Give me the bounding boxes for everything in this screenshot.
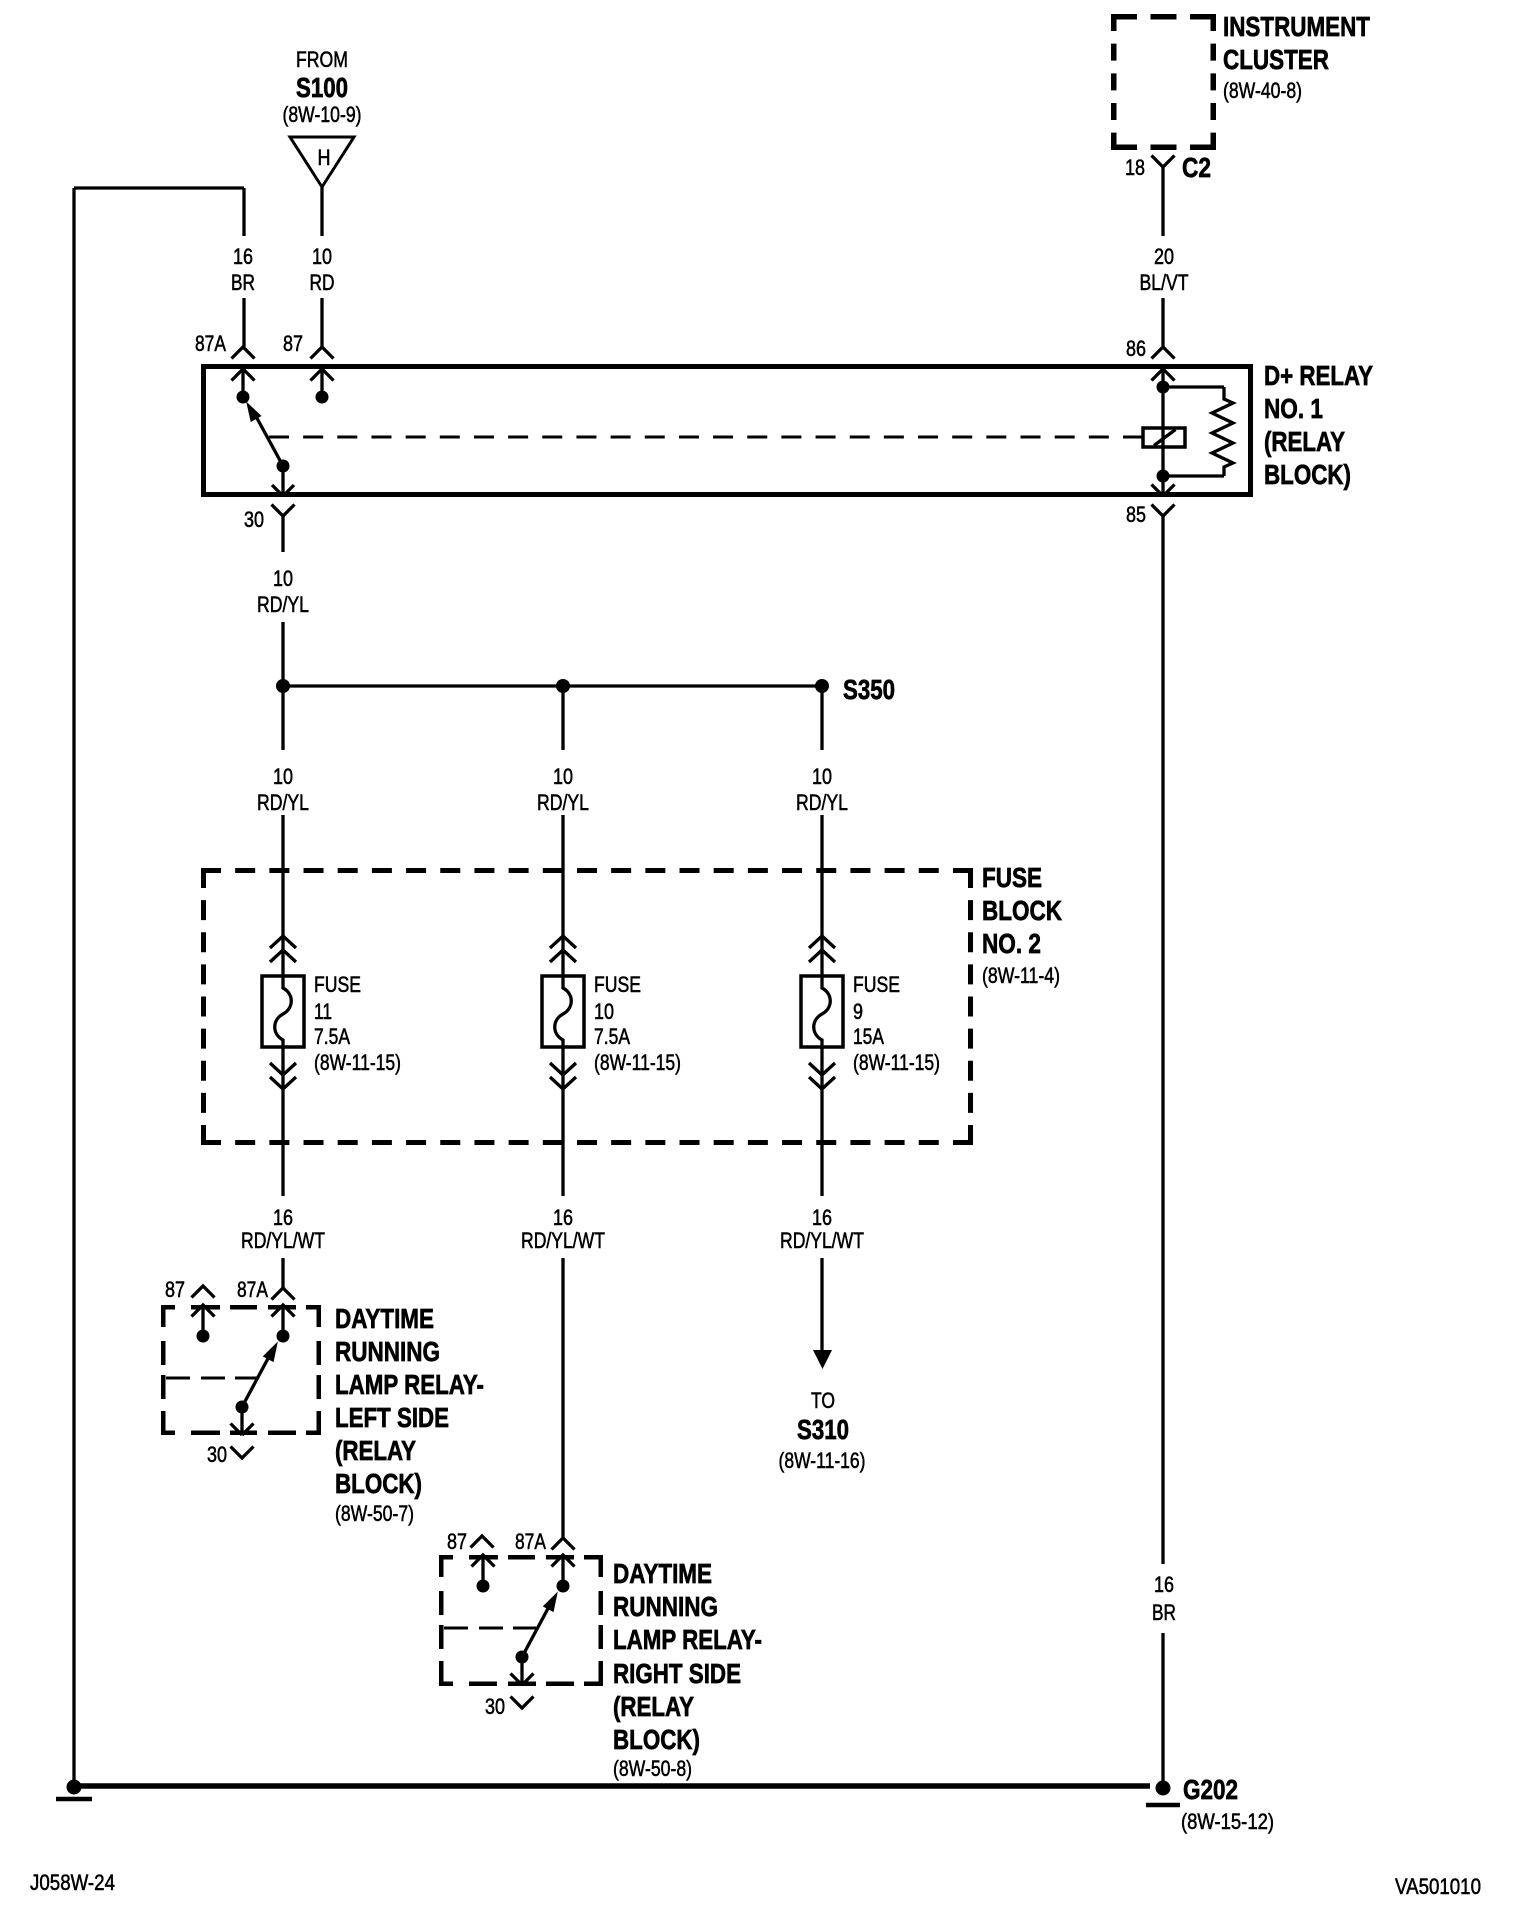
- right relay terminal 87A: [515, 1529, 575, 1593]
- svg-text:16: 16: [1154, 1572, 1174, 1597]
- label FROM S100 (8W-10-9): [283, 47, 362, 127]
- right relay terminal 87: [447, 1529, 495, 1593]
- label DAYTIME RUNNING LAMP RELAY-LEFT SIDE (RELAY BLOCK) (8W-50-7): [335, 1303, 484, 1526]
- node dot middle: [556, 679, 570, 693]
- fuse 10 element: [542, 976, 584, 1047]
- splice S350 horizontal bus: [283, 684, 822, 687]
- fuse block no.2 dashed box: [201, 868, 973, 1145]
- svg-text:7.5A: 7.5A: [594, 1024, 630, 1049]
- relay no.1 switch: pivot dot, contact arrow toward 87A: [247, 403, 290, 473]
- splice symbol H (triangle from S100): [290, 137, 354, 187]
- label FUSE BLOCK NO. 2 (8W-11-4): [982, 862, 1062, 988]
- wire branch 1 from splice into fuse block: [281, 686, 284, 976]
- relay no.1 terminal 30 (bottom): [244, 472, 295, 532]
- wire below fuse 10: [561, 1047, 564, 1538]
- wire coil top horizontal: [1163, 385, 1224, 388]
- left relay internal dashed line: [166, 1377, 257, 1380]
- svg-text:16: 16: [273, 1205, 293, 1230]
- svg-text:87: 87: [283, 331, 303, 356]
- svg-text:FUSE: FUSE: [853, 972, 900, 997]
- instrument cluster dashed box: [1111, 14, 1216, 150]
- svg-text:NO. 2: NO. 2: [982, 928, 1041, 959]
- label FUSE 11 7.5A (8W-11-15): [314, 972, 401, 1075]
- svg-text:10: 10: [553, 764, 573, 789]
- svg-text:LAMP RELAY-: LAMP RELAY-: [613, 1624, 762, 1655]
- wire branch 3 from splice into fuse block: [820, 686, 823, 976]
- ground bus wire: [74, 1783, 1150, 1789]
- svg-text:RUNNING: RUNNING: [613, 1591, 718, 1622]
- wire triangle stem down to terminal 87: [320, 187, 323, 347]
- D+ relay no.1 box: [204, 367, 1251, 495]
- wire left vertical from top corner down to ground bus: [72, 188, 75, 1786]
- svg-text:87A: 87A: [195, 331, 226, 356]
- svg-text:(8W-11-15): (8W-11-15): [314, 1050, 401, 1075]
- svg-text:RD/YL: RD/YL: [257, 592, 309, 617]
- node dot right S350: [815, 679, 829, 693]
- wire label 16 RD/YL/WT branch 2: [521, 1205, 605, 1253]
- svg-text:RD/YL: RD/YL: [796, 790, 848, 815]
- svg-text:86: 86: [1126, 336, 1146, 361]
- svg-text:BLOCK): BLOCK): [613, 1724, 700, 1755]
- svg-text:30: 30: [207, 1442, 227, 1467]
- wire label 16 RD/YL/WT branch 3: [780, 1205, 864, 1253]
- svg-text:S350: S350: [843, 674, 895, 705]
- svg-text:16: 16: [812, 1205, 832, 1230]
- svg-text:(8W-40-8): (8W-40-8): [1223, 78, 1302, 103]
- wire from C2 down to terminal 86: [1161, 167, 1164, 347]
- svg-text:C2: C2: [1182, 152, 1211, 183]
- svg-text:85: 85: [1126, 502, 1146, 527]
- wire 87A branch vertical: [242, 188, 245, 347]
- svg-text:30: 30: [244, 507, 264, 532]
- svg-text:VA501010: VA501010: [1395, 1874, 1481, 1899]
- wire below fuse 11: [281, 1047, 284, 1288]
- label FUSE 10 7.5A (8W-11-15): [594, 972, 681, 1075]
- svg-text:INSTRUMENT: INSTRUMENT: [1223, 11, 1370, 42]
- svg-text:9: 9: [853, 999, 863, 1024]
- svg-text:RUNNING: RUNNING: [335, 1336, 440, 1367]
- dashed control link from switch to coil: [269, 436, 1143, 439]
- left relay terminal 30: [207, 1413, 254, 1467]
- ground node left: [56, 1780, 92, 1800]
- svg-text:S100: S100: [296, 72, 348, 103]
- svg-text:(8W-11-4): (8W-11-4): [982, 963, 1060, 988]
- svg-text:(8W-10-9): (8W-10-9): [283, 102, 362, 127]
- svg-text:(8W-11-15): (8W-11-15): [594, 1050, 681, 1075]
- fuse 11 element: [262, 976, 304, 1047]
- svg-text:BL/VT: BL/VT: [1140, 270, 1189, 295]
- svg-text:DAYTIME: DAYTIME: [335, 1303, 434, 1334]
- svg-text:87A: 87A: [515, 1529, 546, 1554]
- svg-text:D+ RELAY: D+ RELAY: [1264, 360, 1373, 391]
- wire below fuse 9: [820, 1047, 823, 1352]
- svg-text:CLUSTER: CLUSTER: [1223, 44, 1329, 75]
- svg-text:87A: 87A: [237, 1277, 268, 1302]
- relay no.1 terminal 85 (bottom right): [1126, 470, 1175, 528]
- in-line connector chevrons below fuse 10: [550, 1063, 576, 1089]
- wire top horizontal to 87A branch: [74, 186, 244, 189]
- svg-text:(RELAY: (RELAY: [335, 1435, 416, 1466]
- svg-text:15A: 15A: [853, 1024, 884, 1049]
- wire right main from terminal 85 down to ground: [1161, 516, 1164, 1786]
- wire coil vertical: [1161, 387, 1164, 476]
- terminal 87 of relay no.1: [283, 331, 334, 404]
- wire label 10 RD/YL branch 2: [537, 764, 589, 815]
- svg-text:10: 10: [594, 999, 614, 1024]
- svg-text:FROM: FROM: [296, 47, 348, 72]
- svg-text:16: 16: [553, 1205, 573, 1230]
- in-line connector chevrons above fuse 10: [550, 936, 576, 962]
- wire label 16 BR right: [1152, 1572, 1176, 1625]
- svg-text:(8W-50-8): (8W-50-8): [613, 1756, 692, 1781]
- svg-text:87: 87: [447, 1529, 467, 1554]
- label TO S310 (8W-11-16): [779, 1388, 866, 1473]
- terminal 87A of relay no.1: [195, 331, 255, 404]
- svg-text:7.5A: 7.5A: [314, 1024, 350, 1049]
- wire label 10 RD/YL branch 1: [257, 764, 309, 815]
- svg-text:(8W-50-7): (8W-50-7): [335, 1501, 414, 1526]
- svg-text:RD/YL/WT: RD/YL/WT: [521, 1228, 605, 1253]
- connector C2 pin 18 female terminal: [1125, 152, 1211, 183]
- wire label 20 BL/VT: [1140, 244, 1189, 295]
- wire from terminal 30 down to splice S350: [281, 516, 284, 686]
- svg-text:87: 87: [165, 1277, 185, 1302]
- svg-text:16: 16: [233, 244, 253, 269]
- svg-text:10: 10: [312, 244, 332, 269]
- svg-text:FUSE: FUSE: [982, 862, 1042, 893]
- svg-text:BLOCK): BLOCK): [1264, 459, 1351, 490]
- svg-text:10: 10: [273, 764, 293, 789]
- svg-text:30: 30: [485, 1694, 505, 1719]
- svg-text:RD/YL: RD/YL: [537, 790, 589, 815]
- daytime running lamp relay right side dashed box: [439, 1555, 603, 1686]
- label D+ RELAY NO. 1 (RELAY BLOCK): [1264, 360, 1373, 490]
- label INSTRUMENT CLUSTER (8W-40-8): [1223, 11, 1370, 103]
- daytime running lamp relay left side dashed box: [161, 1305, 321, 1435]
- in-line connector chevrons below fuse 9: [809, 1063, 835, 1089]
- svg-text:10: 10: [812, 764, 832, 789]
- resistor zigzag of relay coil: [1212, 387, 1233, 476]
- svg-text:11: 11: [314, 999, 332, 1024]
- left relay terminal 87: [165, 1277, 215, 1343]
- svg-text:RD/YL/WT: RD/YL/WT: [780, 1228, 864, 1253]
- svg-text:(8W-11-15): (8W-11-15): [853, 1050, 940, 1075]
- svg-text:BR: BR: [231, 270, 255, 295]
- right relay terminal 30: [485, 1663, 534, 1719]
- wire label 10 RD/YL branch 3: [796, 764, 848, 815]
- svg-text:RIGHT SIDE: RIGHT SIDE: [613, 1658, 741, 1689]
- svg-text:RD/YL/WT: RD/YL/WT: [241, 1228, 325, 1253]
- label FUSE 9 15A (8W-11-15): [853, 972, 940, 1075]
- svg-text:NO. 1: NO. 1: [1264, 393, 1323, 424]
- svg-text:DAYTIME: DAYTIME: [613, 1558, 712, 1589]
- svg-text:FUSE: FUSE: [314, 972, 361, 997]
- svg-text:S310: S310: [797, 1414, 849, 1445]
- svg-text:G202: G202: [1183, 1774, 1238, 1805]
- wire coil bottom horizontal: [1163, 474, 1224, 477]
- svg-text:18: 18: [1125, 155, 1145, 180]
- svg-text:(RELAY: (RELAY: [613, 1691, 694, 1722]
- right relay internal dashed line: [444, 1627, 536, 1630]
- left relay switch arm: [236, 1343, 278, 1414]
- svg-text:(RELAY: (RELAY: [1264, 426, 1345, 457]
- svg-text:BLOCK: BLOCK: [982, 895, 1062, 926]
- svg-text:J058W-24: J058W-24: [30, 1870, 115, 1895]
- label DAYTIME RUNNING LAMP RELAY-RIGHT SIDE (RELAY BLOCK) (8W-50-8): [613, 1558, 762, 1781]
- fuse 9 element: [801, 976, 843, 1047]
- svg-text:RD/YL: RD/YL: [257, 790, 309, 815]
- coil box symbol with diagonal: [1143, 428, 1185, 447]
- wire label 16 RD/YL/WT branch 1: [241, 1205, 325, 1253]
- svg-text:LAMP RELAY-: LAMP RELAY-: [335, 1369, 484, 1400]
- in-line connector chevrons above fuse 11: [270, 936, 296, 962]
- svg-text:20: 20: [1154, 244, 1174, 269]
- svg-text:BR: BR: [1152, 1600, 1176, 1625]
- wire label 16 BR: [231, 244, 255, 295]
- wire branch 2 from splice into fuse block: [561, 686, 564, 976]
- wire label 10 RD: [310, 244, 335, 295]
- svg-text:H: H: [318, 145, 331, 170]
- svg-text:(8W-15-12): (8W-15-12): [1181, 1809, 1274, 1834]
- svg-text:10: 10: [273, 566, 293, 591]
- svg-text:RD: RD: [310, 270, 335, 295]
- wire label 10 RD/YL: [257, 566, 309, 617]
- left relay terminal 87A: [237, 1277, 295, 1343]
- svg-text:LEFT SIDE: LEFT SIDE: [335, 1402, 449, 1433]
- in-line connector chevrons below fuse 11: [270, 1063, 296, 1089]
- right relay switch arm: [516, 1593, 558, 1664]
- node dot left: [276, 679, 290, 693]
- relay no.1 coil circuit: top dot: [1157, 381, 1170, 394]
- terminal 86 of relay no.1: [1126, 336, 1175, 381]
- ground node G202: [1146, 1774, 1274, 1834]
- svg-text:TO: TO: [811, 1388, 835, 1413]
- svg-text:FUSE: FUSE: [594, 972, 641, 997]
- in-line connector chevrons above fuse 9: [809, 936, 835, 962]
- arrow to S310: [813, 1350, 832, 1369]
- svg-text:BLOCK): BLOCK): [335, 1468, 422, 1499]
- svg-text:(8W-11-16): (8W-11-16): [779, 1448, 866, 1473]
